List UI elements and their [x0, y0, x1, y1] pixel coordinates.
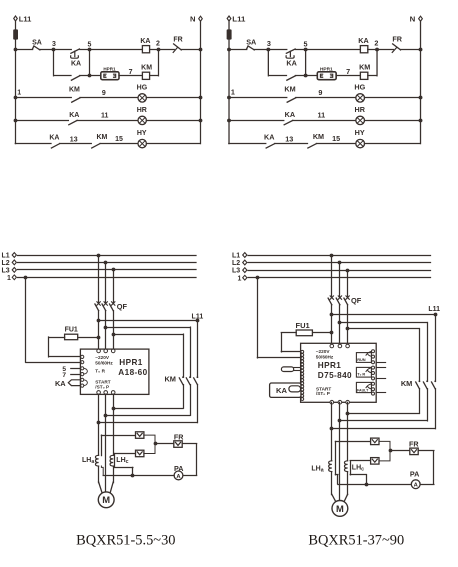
junction rung2 / N rail [419, 119, 423, 123]
contact KM (self-holding, NO) [71, 76, 79, 80]
contact FR (thermal overload, NC) [174, 44, 182, 50]
wire 15: KM contact to lamp HY [316, 143, 355, 145]
node L11 supply terminal [227, 16, 231, 21]
wire 7: HPR1 box to coil KM [119, 75, 142, 77]
current transformer LHa winding [95, 455, 98, 466]
wire FU1 to HPR1 pin1 [281, 332, 296, 334]
svg-text:50/60Hz: 50/60Hz [316, 354, 334, 359]
current transformer LHc winding [110, 455, 113, 466]
junction: L11 / left rail [227, 48, 231, 52]
svg-text:L1: L1 [232, 253, 240, 260]
svg-text:BQXR51-5.5~30: BQXR51-5.5~30 [76, 532, 175, 548]
svg-text:HR: HR [137, 107, 147, 114]
contact KM (NC-path, NO drawn) rung3 [308, 144, 317, 148]
wire FR to N rail [181, 49, 200, 51]
heater FR element 3 [410, 448, 418, 455]
soft starter HPR1 output terminal box [317, 72, 336, 80]
wire branch to HPR1 terminal box [306, 75, 318, 77]
wire 1 drop to HPR1 pin2 [25, 277, 27, 362]
node 5 [304, 48, 308, 52]
wire rung3 to KA contact [229, 143, 266, 145]
svg-text:7: 7 [62, 372, 66, 379]
node N supply terminal [419, 16, 423, 21]
wire coil KA to node 2 [150, 49, 159, 51]
wire QF pole2 out [105, 311, 107, 351]
wire 13: KA to KM contact [275, 143, 308, 145]
terminal pin 1 (HPR1 box) [104, 74, 106, 77]
junction rung1 / N rail [419, 96, 423, 100]
wire node3 to KA contact [269, 49, 287, 51]
wire 7: HPR1 box to coil KM [336, 75, 360, 77]
wire L1 drop to QF [331, 255, 333, 298]
svg-text:LHc: LHc [352, 465, 364, 473]
relay coil KA [142, 46, 149, 53]
wire L11 feed [99, 320, 198, 322]
wire L2 drop to QF [339, 263, 341, 298]
wire node5 to coil KA [306, 49, 361, 51]
node L11 [196, 319, 200, 323]
svg-text:L3: L3 [2, 268, 10, 275]
wire branch to KM contact [269, 75, 287, 77]
wire phase2 bypass feed [340, 322, 427, 324]
wire from L11 terminal [228, 21, 230, 49]
junction L11 tap on phase1 [97, 319, 101, 323]
svg-text:KA: KA [276, 386, 287, 395]
wire merge W [113, 408, 183, 410]
junction rung1 / N rail [199, 96, 203, 100]
wire N rail [200, 21, 202, 143]
svg-text:HPR1: HPR1 [320, 66, 333, 71]
wire 11: KA contact to lamp HR [293, 120, 356, 122]
svg-text:BQXR51-37~90: BQXR51-37~90 [308, 532, 404, 548]
wire stub pin4 [376, 367, 385, 369]
svg-text:HY: HY [355, 129, 365, 137]
wire phase3 bypass feed [113, 334, 183, 336]
contact KA (NO) rung3 [51, 144, 59, 148]
svg-text:KM: KM [401, 379, 413, 388]
junction node5 drop / branch [88, 74, 92, 78]
junction main rung / N rail [419, 48, 423, 52]
svg-text:L2: L2 [2, 260, 10, 267]
svg-text:KM: KM [313, 133, 324, 141]
svg-text:KM: KM [69, 87, 80, 94]
fuse FU (control supply) [227, 29, 232, 39]
wire lamp HY to N rail [365, 143, 421, 145]
junction wire-1 tap [24, 276, 28, 280]
svg-text:9: 9 [318, 89, 322, 97]
breaker QF pole 3 [112, 302, 115, 305]
wire QF pole2 out [339, 305, 341, 346]
wire 13: KA to KM contact [60, 143, 92, 145]
svg-text:RUN: RUN [357, 357, 366, 362]
svg-text:L11: L11 [19, 14, 32, 23]
wire coil KA to node 2 [368, 49, 377, 51]
wire LHc secondary [350, 460, 371, 462]
junction FU1 tap [330, 331, 334, 335]
svg-text:/ST₀ P: /ST₀ P [316, 391, 330, 396]
svg-text:KA: KA [264, 134, 274, 142]
ammeter PA [411, 480, 420, 489]
wire L11 drop to KM pole3 [435, 315, 437, 382]
wire LHc secondary + [115, 453, 136, 455]
node L11 supply terminal [14, 16, 18, 21]
junction merge W [346, 412, 350, 416]
wire from L11 terminal [15, 21, 17, 49]
svg-text:A18-60: A18-60 [118, 368, 147, 377]
svg-text:2: 2 [374, 40, 378, 48]
node wire-1 terminal [12, 275, 16, 280]
soft starter HPR1 D75-840 body [301, 343, 377, 402]
contact FR (thermal overload, NC) [393, 44, 401, 50]
svg-text:M: M [102, 494, 110, 505]
svg-text:7: 7 [129, 69, 133, 76]
bracket pins T0/R [84, 368, 87, 374]
soft starter HPR1 output terminal box [101, 72, 119, 80]
wire junction to FR element 3 [390, 450, 410, 452]
fuse FU (control supply) [13, 29, 18, 39]
wire HPR1 out V [105, 394, 107, 492]
terminal pin 1 (HPR1 box) [320, 74, 322, 77]
wire rung1 to KM contact [229, 97, 287, 99]
wire coil KM up to node 2 [150, 75, 159, 77]
current transformer LHc winding [344, 461, 347, 472]
indicator lamp HR [356, 116, 365, 124]
wire QF pole3 out [113, 311, 115, 351]
wire node2 to FR contact [377, 49, 394, 51]
wire FU1 tap [312, 332, 331, 334]
junction bypass/W merge [97, 421, 101, 425]
junction L3 tap [346, 269, 350, 273]
svg-text:HG: HG [354, 84, 365, 92]
svg-text:15: 15 [332, 135, 340, 143]
svg-text:KA: KA [71, 61, 81, 68]
junction left rail / rung 2 [14, 119, 18, 123]
wire LHa lower [331, 472, 333, 495]
indicator lamp HY [356, 139, 365, 147]
junction bypass/U merge [112, 407, 116, 411]
wire node2 to FR contact [158, 49, 174, 51]
wire 1 drop to HPR1 pin [257, 278, 259, 358]
wire main rung segment [15, 49, 32, 51]
junction left rail / rung 1 [227, 96, 231, 100]
junction L3 tap [112, 268, 116, 272]
svg-text:PA: PA [174, 464, 183, 473]
svg-text:50/60Hz: 50/60Hz [95, 360, 113, 365]
junction L2 tap [338, 261, 342, 265]
junction merge V [338, 419, 342, 423]
contactor KM pole 2 [189, 376, 191, 378]
wire phase L1 [18, 255, 196, 257]
svg-text:KM: KM [141, 65, 152, 72]
wire lamp HY to N rail [146, 143, 200, 145]
wire L2 drop to QF [105, 262, 107, 303]
svg-text:M: M [336, 503, 344, 514]
svg-text:PA: PA [410, 469, 419, 478]
relay KA box [270, 383, 301, 397]
svg-text:13: 13 [70, 136, 78, 143]
relay coil KA [360, 46, 367, 53]
wire LHa secondary + [101, 435, 103, 456]
svg-text:KM: KM [96, 134, 107, 141]
wire HPR1 out U [331, 402, 333, 460]
HPR1 pin circles (left) [81, 355, 84, 358]
junction L1 tap [97, 254, 101, 258]
svg-text:3: 3 [267, 40, 271, 48]
wire HPR1 out U [98, 394, 100, 455]
wire merge U [332, 428, 435, 430]
svg-text:HPR1: HPR1 [318, 361, 341, 370]
output relay RUN [356, 353, 371, 363]
svg-text:LHa: LHa [311, 465, 323, 473]
junction FR elements [154, 442, 158, 446]
terminal pin 2 (HPR1 box) [330, 74, 332, 77]
wire phase2 bypass feed [106, 327, 190, 329]
junction merge U [330, 427, 334, 431]
junction LHc return [365, 483, 369, 487]
wire stub pin3 [376, 362, 385, 364]
contact KA (aux, NO) rung2 [69, 120, 77, 124]
wire phase3 bypass feed [348, 328, 420, 330]
junction phase2 bypass tap [338, 321, 342, 325]
contactor KM pole 3 [197, 376, 199, 378]
HPR1 top pins [330, 344, 334, 348]
wire main rung segment [229, 49, 247, 51]
junction wire-1 tap [256, 276, 260, 280]
junction L1 tap [330, 254, 334, 258]
heater FR element 1 [136, 432, 144, 439]
wire 11: KA contact to lamp HR [77, 120, 138, 122]
svg-text:5: 5 [87, 42, 91, 49]
wire 1 horizontal [18, 277, 196, 279]
svg-text:FR: FR [409, 439, 419, 448]
contactor KM pole 2 [426, 380, 428, 382]
junction phase3 bypass tap [112, 333, 116, 337]
svg-text:FR: FR [392, 36, 402, 44]
svg-text:FAULT: FAULT [357, 388, 369, 392]
svg-text:QF: QF [351, 296, 362, 305]
svg-text:5: 5 [303, 41, 307, 49]
wire L11 feed [332, 314, 435, 316]
wire KM contact to node 7a [295, 75, 305, 77]
node wire-1 terminal [243, 275, 247, 280]
junction phase3 bypass tap [346, 327, 350, 331]
wire KM pole1 down [419, 389, 421, 414]
svg-text:KM: KM [284, 86, 295, 94]
contact KA (aux, NO) rung2 [284, 120, 293, 124]
svg-text:T₀ R: T₀ R [95, 369, 105, 374]
wire KM pole3 down [435, 389, 437, 429]
svg-text:N: N [190, 15, 195, 24]
indicator lamp HG [356, 94, 365, 102]
indicator lamp HY [138, 139, 146, 147]
junction rung2 / N rail [199, 119, 203, 123]
node L11 [434, 313, 438, 317]
HPR1 bottom pins [330, 400, 334, 404]
wire phase L2 [18, 262, 196, 264]
junction: L11 / left rail [14, 48, 18, 52]
wire L3 drop to QF [113, 270, 115, 304]
svg-text:KA: KA [69, 112, 79, 119]
wire node3 branch drop [53, 49, 55, 76]
svg-text:1: 1 [238, 275, 242, 282]
heater FR element 3 [174, 441, 182, 448]
wire FR to N rail [400, 49, 420, 51]
svg-text:15: 15 [115, 136, 123, 143]
wire 9: KM contact to lamp HG [296, 97, 356, 99]
breaker QF pole 3 [346, 296, 349, 299]
wire KM pole2 down [427, 389, 429, 421]
svg-text:9: 9 [102, 90, 106, 97]
wire junction to FR element 3 [155, 443, 174, 445]
svg-text:1: 1 [7, 275, 11, 282]
wire FR1 to junction [379, 441, 390, 451]
ammeter PA [174, 471, 183, 480]
svg-text:SA: SA [32, 40, 42, 47]
breaker QF pole 1 [97, 302, 100, 305]
contact KA (NC, time-delay) [71, 49, 80, 53]
wire 15: KM contact to lamp HY [100, 143, 138, 145]
node L3 terminal [243, 268, 247, 273]
wire ammeter return [338, 484, 411, 486]
current transformer LHa winding [329, 461, 332, 472]
svg-text:KA: KA [358, 37, 368, 45]
wire merge V [340, 420, 427, 422]
wire L1 drop to QF [98, 255, 100, 303]
svg-text:QF: QF [117, 302, 128, 311]
svg-text:T₀ R: T₀ R [357, 372, 365, 377]
wire FR1 to junction [144, 435, 155, 444]
wire coil KM up to node 2 [368, 75, 377, 77]
contactor KM pole 3 [434, 380, 436, 382]
terminal pin 2 (HPR1 box) [114, 74, 116, 77]
heater FR element 1 [371, 438, 379, 445]
svg-text:7: 7 [346, 68, 350, 76]
wire to node 3 [254, 49, 269, 51]
junction FR elements [389, 449, 393, 453]
wire L3 drop to QF [347, 270, 349, 297]
node 2 [375, 48, 379, 52]
indicator lamp HG [138, 94, 146, 102]
wire HPR1 out W [113, 394, 115, 455]
switch SA [32, 46, 40, 50]
node 5 [88, 48, 92, 52]
output relay T R [356, 367, 371, 377]
contact KA loop to START pins [68, 380, 80, 386]
wire stub 7 [71, 374, 81, 376]
contact KM (aux, NO) rung1 [287, 98, 296, 102]
node L2 terminal [243, 260, 247, 265]
node L2 terminal [12, 260, 16, 265]
wire HPR1 out W [347, 402, 349, 460]
wire LHa secondary + [335, 441, 337, 474]
svg-text:KA: KA [285, 111, 295, 119]
wire QF pole1 out [331, 305, 333, 346]
wire FR2 to junction [379, 451, 390, 461]
wire LHc lower [113, 466, 115, 483]
svg-text:HPR1: HPR1 [119, 358, 142, 367]
wire lamp HG to N rail [146, 97, 200, 99]
HPR1 top pins [97, 349, 101, 353]
wire FU1 to HPR1 pin1 [49, 337, 65, 339]
svg-text:~220V: ~220V [95, 355, 110, 360]
fuse FU1 [296, 330, 312, 336]
svg-text:13: 13 [285, 136, 293, 144]
output relay FAULT [356, 382, 371, 392]
wire FU1 tap [78, 337, 99, 339]
junction LHc return [131, 474, 135, 478]
wire HPR1 out V [339, 402, 341, 501]
svg-text:L3: L3 [232, 268, 240, 275]
wire phase L2 [248, 262, 430, 264]
contact KM (aux, NO) rung1 [72, 98, 80, 102]
soft starter HPR1 A18-60 body [80, 349, 148, 394]
contactor coil KM [142, 72, 149, 79]
junction bypass/V merge [104, 414, 108, 418]
svg-text:KM: KM [359, 64, 370, 72]
svg-text:KA: KA [286, 60, 296, 68]
svg-text:2: 2 [156, 40, 160, 47]
wire phase L1 [248, 255, 430, 257]
wire rung2 to KA contact [15, 120, 68, 122]
contact KM (NC-path, NO drawn) rung3 [92, 144, 100, 148]
wire FR3 to ammeter loop [182, 443, 196, 445]
contactor coil KM [360, 72, 367, 79]
wire FR2 to junction [144, 444, 155, 454]
breaker QF pole 2 [104, 302, 107, 305]
wire merge V [106, 415, 190, 417]
wire motor lead W [344, 494, 347, 501]
wire QF pole1 out [98, 311, 100, 351]
svg-text:L2: L2 [232, 260, 240, 267]
breaker QF pole 2 [338, 296, 341, 299]
wire stub pin6 [376, 378, 385, 380]
wire KA contact to node 5 [296, 49, 306, 51]
svg-text:L11: L11 [192, 313, 204, 320]
wire loop to pins [294, 367, 301, 369]
svg-text:HPR1: HPR1 [103, 66, 116, 71]
wire ammeter return [103, 475, 174, 477]
svg-text:11: 11 [101, 112, 109, 119]
svg-text:N: N [410, 15, 416, 24]
wire motor lead W [110, 482, 113, 492]
wire KM pole3 down [197, 385, 199, 423]
motor M [332, 501, 348, 517]
svg-text:FR: FR [174, 433, 184, 442]
svg-text:KM: KM [164, 374, 176, 383]
wire motor lead U [99, 482, 102, 492]
svg-text:KA: KA [140, 38, 150, 45]
junction L2 tap [104, 261, 108, 265]
wire node5 to branch [305, 49, 307, 76]
wire lamp HR to N rail [365, 120, 421, 122]
wire merge U [99, 422, 198, 424]
HPR1 pin circles (left) [301, 350, 304, 353]
HPR1 right pins [372, 350, 375, 353]
wire motor lead U [332, 494, 336, 501]
breaker QF pole 1 [330, 296, 333, 299]
wire LHa secondary - [101, 466, 103, 475]
node L3 terminal [12, 268, 16, 273]
node N supply terminal [199, 16, 203, 21]
motor M [98, 492, 114, 508]
svg-text:3: 3 [52, 41, 56, 48]
svg-text:L11: L11 [232, 15, 246, 24]
wire phase L3 [248, 270, 430, 272]
svg-text:L11: L11 [428, 306, 440, 313]
svg-text:11: 11 [318, 112, 326, 120]
wire L11 drop to KM pole3 [197, 320, 199, 377]
switch SA [247, 46, 255, 50]
